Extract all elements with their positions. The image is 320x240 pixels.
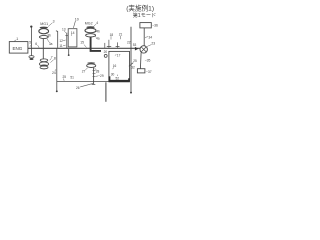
aux machine ring — [87, 64, 96, 68]
svg-text:15: 15 — [80, 41, 84, 45]
svg-text:4: 4 — [96, 21, 98, 25]
leader 18 — [110, 36, 112, 39]
svg-text:7: 7 — [51, 55, 53, 59]
leader 34 — [145, 36, 148, 39]
svg-text:~29: ~29 — [98, 74, 104, 78]
svg-text:3b: 3b — [47, 33, 51, 37]
V3 end dot — [56, 90, 58, 92]
svg-text:20: 20 — [104, 50, 108, 54]
svg-text:51: 51 — [70, 76, 74, 80]
leader 16 — [112, 67, 115, 69]
brake tick row — [65, 34, 68, 36]
leader 3 — [48, 23, 53, 27]
svg-text:32: 32 — [131, 66, 135, 70]
svg-text:53: 53 — [133, 43, 137, 47]
leader 11 — [63, 44, 66, 47]
ball top of V1 — [30, 25, 32, 27]
leader 21 — [119, 36, 121, 39]
svg-text:~36: ~36 — [152, 24, 158, 28]
clutch stack line left — [56, 31, 58, 48]
MG2 thick shaft — [91, 37, 101, 51]
output stub of 14 — [68, 49, 70, 55]
svg-text:17: 17 — [117, 54, 121, 58]
svg-text:11: 11 — [59, 44, 63, 48]
svg-text:4b: 4b — [96, 30, 100, 34]
control box thick corner left — [108, 76, 110, 81]
gear 7 dark band — [41, 65, 48, 67]
svg-text:第1モード: 第1モード — [133, 11, 157, 19]
leader 26 — [80, 83, 93, 87]
svg-text:~35: ~35 — [145, 59, 151, 63]
drop line V7 — [105, 82, 107, 102]
chain shaft — [93, 68, 95, 85]
clutch 53 triangle — [135, 47, 139, 51]
gear 6 lower ellipse — [30, 58, 34, 60]
long rod V6 — [130, 27, 132, 93]
MG1 stator ring — [39, 29, 49, 34]
V6 end dot — [130, 92, 132, 94]
svg-text:23: 23 — [151, 42, 155, 46]
tank 37 box — [137, 69, 145, 73]
countershaft V3 — [56, 49, 58, 92]
MG2 rotor — [86, 34, 96, 37]
leader 23 — [147, 45, 151, 47]
MG1 stator top — [40, 27, 48, 29]
svg-text:26: 26 — [76, 86, 80, 90]
gear 7 bottom ellipse — [40, 66, 48, 69]
MG1 shaft V2 — [42, 39, 44, 60]
svg-text:10: 10 — [75, 17, 79, 21]
pipe 36 down — [143, 28, 145, 46]
brake stack line — [66, 33, 68, 48]
svg-text:22: 22 — [127, 40, 131, 44]
MG2 stator ring — [85, 28, 96, 33]
control box thick bottom — [109, 80, 130, 82]
lower shaft H2 — [57, 80, 110, 82]
gear 7 stub — [43, 68, 45, 71]
svg-text:27: 27 — [82, 69, 86, 73]
tick stand a — [104, 43, 106, 48]
compressor 23 circle — [140, 46, 147, 53]
gearbox 14 box — [68, 29, 77, 47]
leader 7 — [50, 59, 51, 61]
svg-text:12: 12 — [59, 39, 63, 43]
chain tick 1 — [93, 70, 96, 72]
svg-text:16: 16 — [113, 64, 117, 68]
leader 10 — [73, 21, 75, 28]
control box — [109, 51, 130, 81]
leader 52 — [116, 75, 119, 76]
pipe 35 down — [139, 53, 142, 69]
svg-text:ENG: ENG — [13, 46, 23, 51]
input shaft V1 — [30, 27, 32, 55]
chain tick 3 — [93, 76, 96, 78]
leader 13 — [64, 31, 66, 33]
leader 5 — [30, 44, 32, 46]
leader 3a — [47, 39, 49, 42]
leader 4a — [95, 36, 97, 37]
strike 32 — [129, 63, 133, 67]
svg-text:1: 1 — [16, 37, 18, 41]
condenser 36 box — [140, 23, 151, 28]
svg-text:(実施例1): (実施例1) — [126, 3, 154, 12]
chain foot — [92, 83, 96, 85]
leader 14 — [70, 34, 73, 36]
svg-text:5: 5 — [29, 41, 31, 45]
svg-text:MG1: MG1 — [40, 22, 48, 26]
leader 15 — [84, 45, 86, 48]
leader 1 — [14, 40, 16, 42]
svg-text:24: 24 — [52, 71, 56, 75]
engine ENG box — [9, 42, 28, 54]
svg-text:25: 25 — [133, 59, 137, 63]
svg-text:8: 8 — [54, 56, 56, 60]
svg-text:18: 18 — [110, 33, 114, 37]
gear 6 upper ellipse — [29, 56, 34, 58]
leader 3b — [47, 32, 48, 33]
leader 6 — [38, 45, 40, 48]
svg-text:52: 52 — [116, 76, 120, 80]
leader 8 — [50, 60, 53, 63]
MG1 rotor — [39, 35, 48, 38]
svg-text:4a: 4a — [96, 37, 100, 41]
svg-text:25: 25 — [63, 75, 67, 79]
svg-text:MG2: MG2 — [85, 22, 93, 26]
leader 29 — [96, 75, 98, 77]
svg-text:~37: ~37 — [146, 70, 152, 74]
leader 25 — [63, 79, 66, 81]
aux machine stator — [87, 62, 95, 64]
gear 7 middle band — [39, 62, 48, 66]
tick stand c — [116, 42, 120, 47]
tick stand b — [107, 40, 111, 48]
leader 4 — [94, 24, 97, 26]
compressor X — [141, 47, 146, 52]
svg-text:30: 30 — [111, 72, 115, 76]
pulley 20 — [104, 54, 107, 57]
main shaft H1 — [28, 47, 140, 49]
chain tick 2 — [93, 73, 96, 75]
MG2 stator top — [86, 26, 94, 28]
gear 7 top ellipse — [40, 59, 48, 62]
svg-text:14: 14 — [71, 31, 75, 35]
svg-text:34: 34 — [148, 35, 152, 39]
svg-text:6: 6 — [35, 42, 37, 46]
svg-text:21: 21 — [119, 33, 123, 37]
leader 27 — [85, 68, 87, 70]
leader 12 — [63, 39, 66, 42]
svg-text:3: 3 — [53, 20, 55, 24]
leader 24 — [55, 69, 56, 71]
svg-text:3a: 3a — [49, 42, 53, 46]
stub dot — [68, 54, 70, 56]
svg-text:13: 13 — [62, 28, 66, 32]
leader 28 — [95, 68, 97, 70]
control box thick corner right — [128, 78, 130, 81]
leader 17 — [115, 54, 117, 55]
